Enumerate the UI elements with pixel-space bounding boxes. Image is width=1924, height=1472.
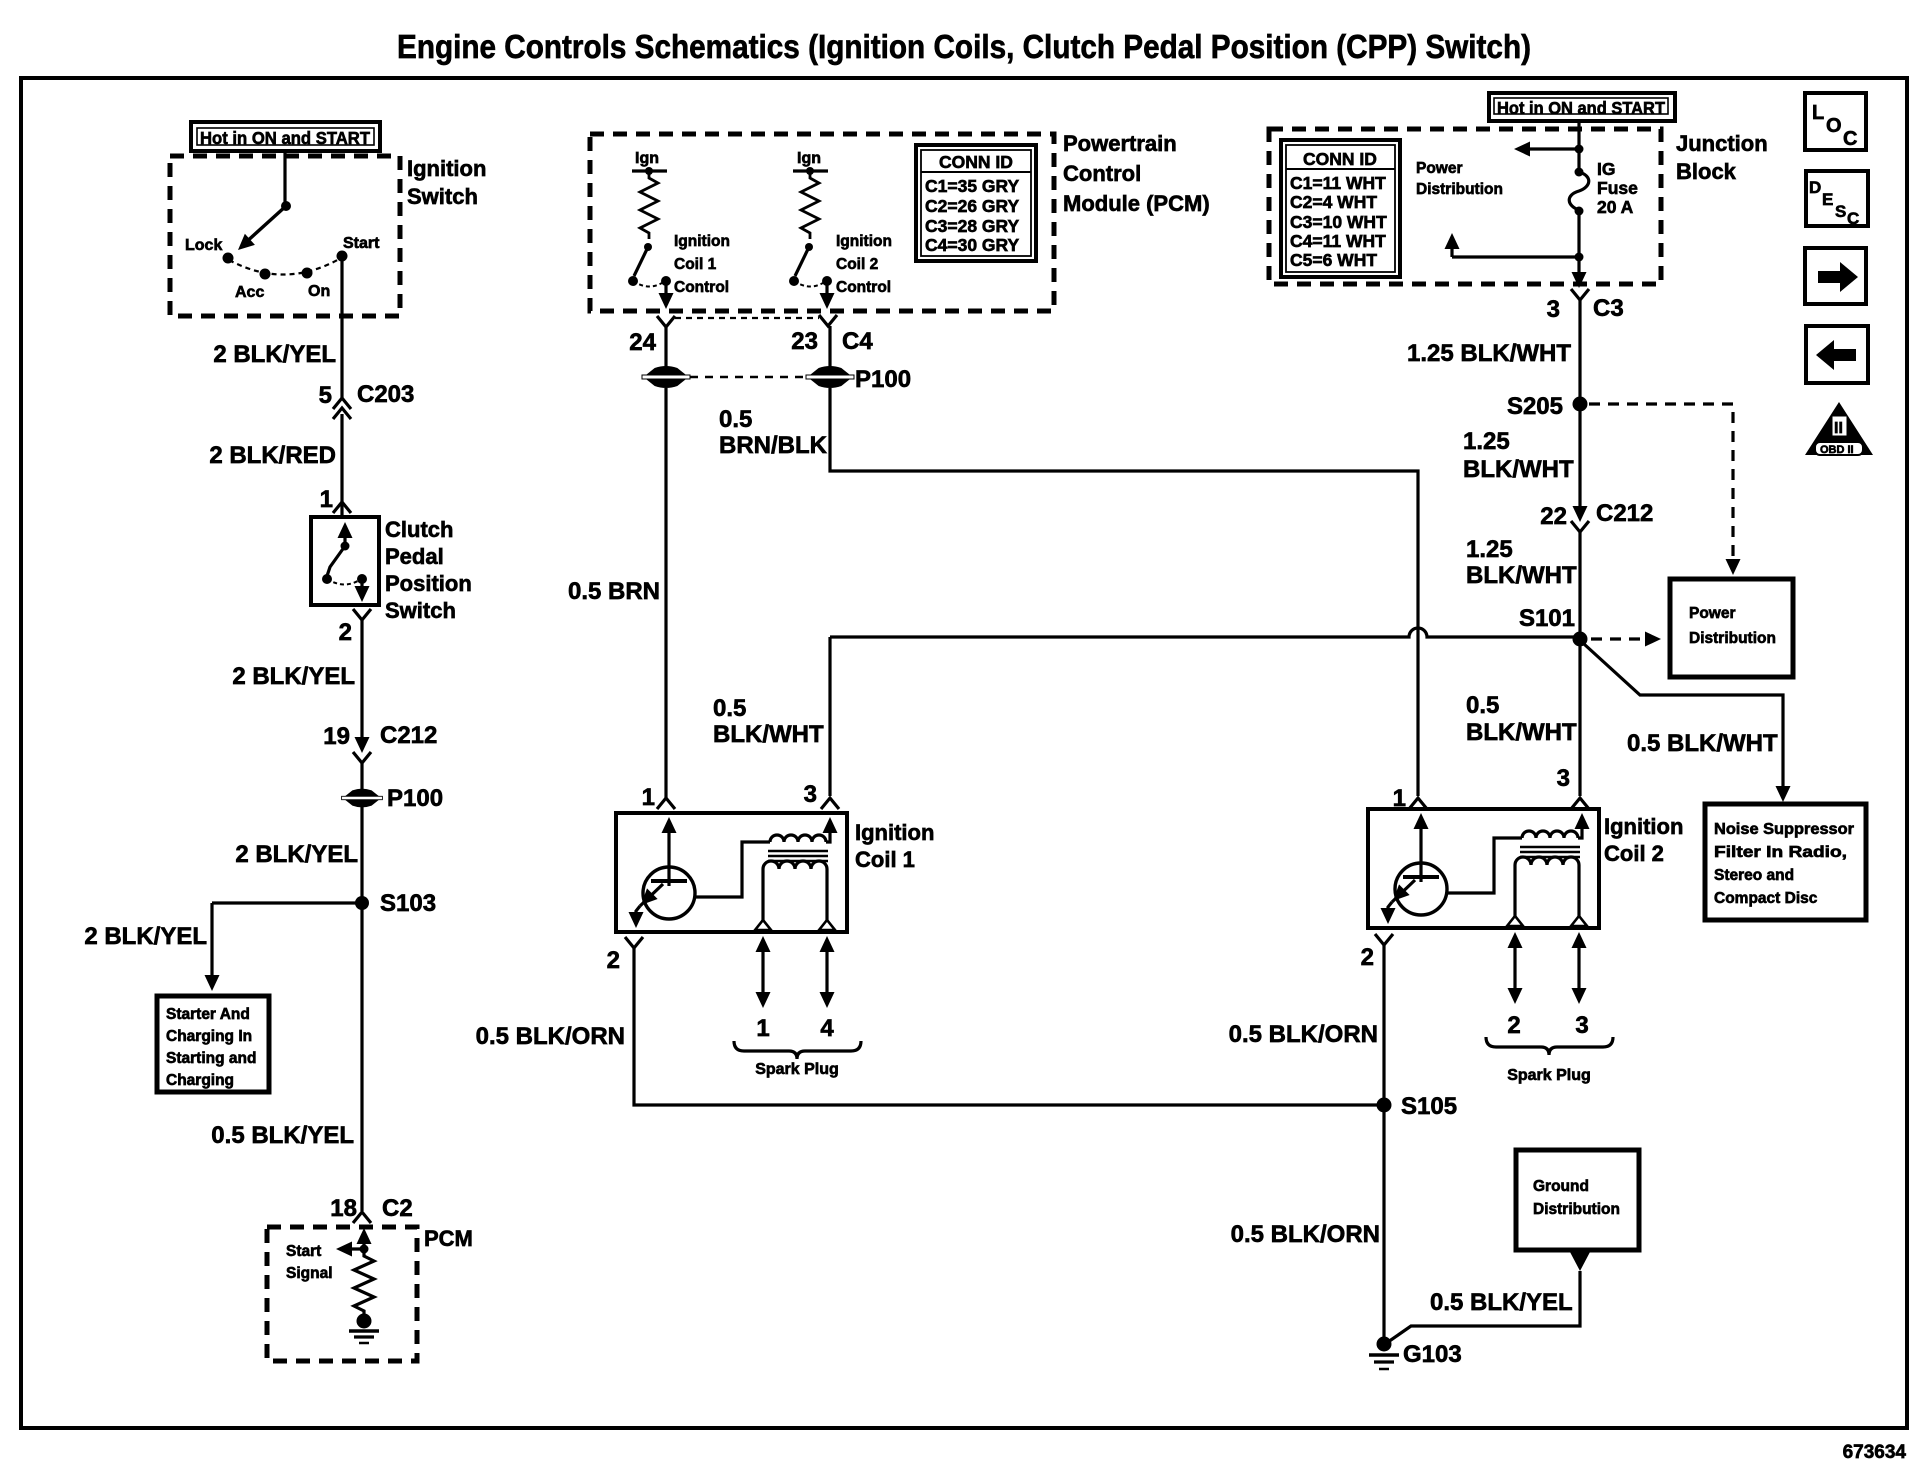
node below fuse: [1575, 253, 1584, 262]
dashed arrow S101 to power distribution box: [1591, 637, 1648, 640]
switch arm with arrow: [244, 206, 286, 244]
svg-text:O: O: [1826, 115, 1842, 137]
svg-text:L: L: [1812, 102, 1824, 124]
svg-text:0.5 BLK/YEL: 0.5 BLK/YEL: [1430, 1289, 1573, 1316]
svg-text:Distribution: Distribution: [1533, 1201, 1620, 1218]
svg-text:24: 24: [629, 329, 656, 356]
power distribution arrow: [1525, 147, 1579, 150]
svg-text:Start: Start: [343, 235, 380, 252]
svg-text:0.5 BLK/ORN: 0.5 BLK/ORN: [476, 1023, 625, 1050]
svg-text:S: S: [1835, 202, 1846, 221]
svg-text:3: 3: [1547, 296, 1560, 323]
node Acc: [260, 269, 271, 280]
svg-text:0.5: 0.5: [713, 695, 746, 722]
svg-text:Coil 1: Coil 1: [674, 256, 717, 273]
wire S105 to G103: [1382, 1105, 1385, 1338]
svg-text:Coil 2: Coil 2: [1604, 841, 1664, 866]
svg-text:Ignition: Ignition: [836, 233, 892, 250]
connector C3: [1571, 289, 1589, 300]
svg-text:5: 5: [319, 382, 332, 409]
svg-text:18: 18: [330, 1195, 357, 1222]
svg-text:C203: C203: [357, 381, 414, 408]
splice S105: [1377, 1098, 1392, 1113]
wire coil 2 pin 2 to S105: [1382, 945, 1385, 1105]
svg-text:1.25: 1.25: [1463, 428, 1510, 455]
svg-text:BLK/WHT: BLK/WHT: [1466, 562, 1577, 589]
wire C212 to S101: [1578, 532, 1581, 639]
svg-text:Powertrain: Powertrain: [1063, 131, 1177, 156]
wire ground distribution to G103: [1388, 1271, 1580, 1342]
svg-text:Block: Block: [1676, 159, 1737, 184]
svg-text:PCM: PCM: [424, 1226, 473, 1251]
svg-text:D: D: [1809, 178, 1821, 197]
svg-text:Hot in ON and START: Hot in ON and START: [1497, 98, 1665, 118]
svg-text:BRN/BLK: BRN/BLK: [719, 432, 828, 459]
connector chevron pin 1: [333, 502, 351, 513]
svg-text:C: C: [1847, 209, 1859, 228]
svg-text:1: 1: [320, 486, 333, 513]
connector chevrons C4: [657, 316, 675, 327]
svg-text:Ignition: Ignition: [855, 820, 934, 845]
LOC icon: [1805, 93, 1866, 150]
splice S103: [355, 896, 369, 910]
wire PCM 23 through P100: [828, 326, 831, 368]
svg-text:C1=35 GRY: C1=35 GRY: [925, 176, 1020, 196]
start signal arrow into PCM: [362, 1237, 365, 1250]
svg-text:673634: 673634: [1843, 1442, 1907, 1463]
left arrow icon: [1806, 326, 1868, 383]
svg-text:C4=11 WHT: C4=11 WHT: [1290, 231, 1386, 251]
svg-text:Module (PCM): Module (PCM): [1063, 191, 1210, 216]
pin 3 chevron coil 1: [821, 798, 839, 809]
svg-text:Switch: Switch: [407, 184, 478, 209]
svg-text:S205: S205: [1507, 393, 1563, 420]
DESC icon: [1806, 171, 1868, 228]
svg-text:S101: S101: [1519, 605, 1575, 632]
svg-text:19: 19: [323, 723, 350, 750]
svg-text:CONN ID: CONN ID: [1303, 149, 1377, 169]
svg-text:0.5 BLK/ORN: 0.5 BLK/ORN: [1229, 1021, 1378, 1048]
svg-text:2: 2: [1507, 1012, 1520, 1039]
pin 1 chevron coil 1: [657, 798, 675, 809]
svg-text:3: 3: [1557, 765, 1570, 792]
svg-text:OBD II: OBD II: [1820, 444, 1854, 456]
svg-text:C: C: [1843, 128, 1857, 150]
svg-text:Clutch: Clutch: [385, 517, 453, 542]
svg-text:2 BLK/YEL: 2 BLK/YEL: [235, 841, 358, 868]
ignition switch dashed box: [170, 156, 400, 316]
PCM dashed box (top): [590, 134, 1054, 311]
svg-text:3: 3: [804, 781, 817, 808]
dashed run S205 to power distribution: [1589, 404, 1733, 559]
svg-text:2 BLK/YEL: 2 BLK/YEL: [84, 923, 207, 950]
svg-text:2 BLK/YEL: 2 BLK/YEL: [213, 341, 336, 368]
svg-text:Starting and: Starting and: [166, 1050, 256, 1067]
connector P100 grommet (coil 2 wire): [806, 367, 854, 387]
power distribution box: [1670, 579, 1793, 677]
start signal branch arrow: [342, 1247, 364, 1250]
svg-text:Ign: Ign: [635, 150, 659, 167]
wire C3 to S205: [1578, 300, 1581, 404]
svg-text:1: 1: [756, 1015, 769, 1042]
wire C203 to CPP switch: [340, 414, 343, 517]
CONN ID table (junction block): [1281, 140, 1400, 277]
svg-text:Engine Controls Schematics (Ig: Engine Controls Schematics (Ignition Coi…: [397, 28, 1531, 65]
junction block dashed box: [1269, 129, 1661, 284]
svg-text:2: 2: [339, 619, 352, 646]
svg-text:Switch: Switch: [385, 598, 456, 623]
svg-text:C2: C2: [382, 1195, 413, 1222]
Hot in ON and START label box (left): [191, 122, 380, 151]
svg-text:C4=30 GRY: C4=30 GRY: [925, 235, 1020, 255]
starter and charging reference box: [157, 996, 269, 1092]
wire below fuse: [1577, 211, 1580, 277]
svg-text:Charging: Charging: [166, 1072, 234, 1089]
connector C203: [333, 398, 351, 409]
svg-text:Coil 1: Coil 1: [855, 847, 915, 872]
svg-text:Control: Control: [1063, 161, 1141, 186]
svg-text:Compact Disc: Compact Disc: [1714, 890, 1818, 907]
svg-text:Stereo and: Stereo and: [1714, 867, 1794, 884]
connector P100 grommet: [342, 790, 383, 807]
svg-text:Ground: Ground: [1533, 1178, 1589, 1195]
wire C212 to P100: [360, 763, 363, 790]
pin 3 chevron coil 2: [1571, 798, 1589, 809]
svg-text:Pedal: Pedal: [385, 544, 444, 569]
svg-text:1.25: 1.25: [1466, 536, 1513, 563]
wire S101 to noise suppressor: [1584, 644, 1783, 793]
ground in PCM: [349, 1314, 379, 1344]
svg-text:0.5: 0.5: [1466, 692, 1499, 719]
node Start: [337, 251, 348, 262]
switch position dashed arc: [229, 258, 341, 275]
svg-text:Position: Position: [385, 571, 472, 596]
wire S101 to coil 2 pin 3: [1578, 639, 1581, 796]
svg-text:Spark Plug: Spark Plug: [755, 1061, 839, 1078]
svg-text:Filter In Radio,: Filter In Radio,: [1714, 844, 1847, 861]
svg-text:Ignition: Ignition: [1604, 814, 1683, 839]
coil 2 driver contact: [789, 243, 835, 309]
wire 0.5 BRN/BLK run to coil 2 pin 1: [830, 388, 1418, 796]
wire hot into junction block: [1577, 121, 1580, 171]
svg-text:C5=6 WHT: C5=6 WHT: [1290, 250, 1377, 270]
dashed connector link: [675, 317, 819, 319]
svg-text:Charging In: Charging In: [166, 1028, 252, 1045]
svg-text:1.25 BLK/WHT: 1.25 BLK/WHT: [1407, 340, 1571, 367]
resistor in PCM: [354, 1250, 374, 1316]
svg-text:IG: IG: [1597, 159, 1615, 179]
fuse IG 20 A: [1569, 168, 1589, 216]
svg-text:C4: C4: [842, 328, 873, 355]
svg-text:Acc: Acc: [235, 284, 264, 301]
svg-text:II: II: [1834, 420, 1843, 437]
pin 2 chevron coil 2: [1375, 934, 1393, 945]
wire S205 to C212: [1578, 404, 1581, 506]
svg-text:BLK/WHT: BLK/WHT: [713, 721, 824, 748]
svg-text:P100: P100: [855, 366, 911, 393]
right arrow icon: [1805, 248, 1866, 304]
wire PCM 24 to P100: [664, 327, 667, 368]
svg-text:C212: C212: [380, 722, 437, 749]
pin 2 chevron coil 1: [625, 937, 643, 948]
wire P100 to coil 1 pin 1: [664, 388, 667, 798]
svg-text:S105: S105: [1401, 1093, 1457, 1120]
svg-text:Control: Control: [836, 279, 891, 296]
svg-text:C3: C3: [1593, 295, 1624, 322]
connector C212: [355, 737, 370, 753]
svg-text:Ign: Ign: [797, 150, 821, 167]
switch pivot dot: [281, 201, 291, 211]
wire coil 1 pin 2 to S105: [634, 948, 1384, 1105]
resistor coil 1 driver: [640, 171, 658, 239]
svg-text:1: 1: [642, 784, 655, 811]
svg-text:0.5 BLK/ORN: 0.5 BLK/ORN: [1231, 1221, 1380, 1248]
svg-text:Distribution: Distribution: [1416, 181, 1503, 198]
svg-text:20 A: 20 A: [1597, 197, 1634, 217]
svg-text:23: 23: [791, 328, 818, 355]
svg-text:Ignition: Ignition: [407, 156, 486, 181]
wire CPP to C212: [360, 620, 363, 738]
Hot in ON and START label box (right): [1489, 93, 1675, 121]
svg-text:0.5 BLK/WHT: 0.5 BLK/WHT: [1627, 730, 1778, 757]
wire hot feed into switch: [283, 151, 286, 206]
svg-text:BLK/WHT: BLK/WHT: [1463, 456, 1574, 483]
dashed P100 link: [690, 376, 806, 379]
ignition coil 1 assembly: [616, 813, 861, 1059]
CONN ID table (PCM): [916, 145, 1036, 261]
svg-text:Ignition: Ignition: [674, 233, 730, 250]
ground G103: [1369, 1337, 1399, 1370]
svg-text:3: 3: [1575, 1012, 1588, 1039]
svg-text:Junction: Junction: [1676, 131, 1768, 156]
node On: [302, 268, 313, 279]
svg-text:Hot in ON and START: Hot in ON and START: [200, 128, 370, 148]
svg-text:22: 22: [1540, 503, 1567, 530]
arrow below ground distribution: [1570, 1252, 1590, 1271]
svg-text:Noise Suppressor: Noise Suppressor: [1714, 821, 1854, 838]
svg-text:Spark Plug: Spark Plug: [1507, 1067, 1591, 1084]
svg-text:C2=26 GRY: C2=26 GRY: [925, 196, 1020, 216]
svg-text:Starter And: Starter And: [166, 1006, 250, 1023]
svg-text:0.5 BLK/YEL: 0.5 BLK/YEL: [211, 1122, 354, 1149]
svg-text:C3=28 GRY: C3=28 GRY: [925, 216, 1020, 236]
arrow out of junction block: [1572, 272, 1587, 288]
branch arrow up: [1452, 255, 1579, 258]
wire S101 feed to coil 1 pin 3 (with hop): [830, 628, 1580, 637]
svg-text:Distribution: Distribution: [1689, 630, 1776, 647]
svg-text:C212: C212: [1596, 500, 1653, 527]
resistor coil 2 driver: [801, 171, 819, 239]
connector P100 grommet (coil 1 wire): [642, 367, 690, 387]
svg-text:2 BLK/YEL: 2 BLK/YEL: [232, 663, 355, 690]
ground distribution box: [1516, 1150, 1639, 1250]
branch wire to starter box: [212, 901, 362, 904]
wire P100 to S103 to C2: [360, 806, 363, 1211]
svg-text:CONN ID: CONN ID: [939, 152, 1013, 172]
svg-text:Control: Control: [674, 279, 729, 296]
svg-text:4: 4: [820, 1015, 834, 1042]
svg-text:S103: S103: [380, 890, 436, 917]
svg-text:G103: G103: [1403, 1341, 1462, 1368]
splice S205: [1573, 397, 1588, 412]
svg-text:0.5: 0.5: [719, 406, 752, 433]
svg-text:Signal: Signal: [286, 1265, 333, 1282]
svg-text:C1=11 WHT: C1=11 WHT: [1290, 173, 1386, 193]
svg-text:2 BLK/RED: 2 BLK/RED: [209, 442, 336, 469]
ignition coil 2 assembly: [1368, 809, 1613, 1055]
svg-text:On: On: [308, 283, 330, 300]
svg-text:Fuse: Fuse: [1597, 178, 1638, 198]
svg-text:Start: Start: [286, 1243, 321, 1260]
svg-text:BLK/WHT: BLK/WHT: [1466, 719, 1577, 746]
wire from Start down to C203: [340, 261, 343, 399]
noise suppressor reference box: [1705, 804, 1866, 920]
pin 1 chevron coil 2: [1409, 798, 1427, 809]
svg-text:Power: Power: [1689, 605, 1736, 622]
svg-text:Lock: Lock: [185, 237, 222, 254]
OBD II warning triangle: [1805, 402, 1873, 456]
svg-text:2: 2: [607, 947, 620, 974]
connector chevron pin 2: [353, 609, 371, 620]
CPP switch internals: [322, 522, 370, 602]
svg-text:Coil 2: Coil 2: [836, 256, 878, 273]
svg-text:Power: Power: [1416, 160, 1463, 177]
svg-text:2: 2: [1361, 944, 1374, 971]
node Lock: [223, 253, 234, 264]
svg-text:C3=10 WHT: C3=10 WHT: [1290, 212, 1387, 232]
svg-text:P100: P100: [387, 785, 443, 812]
connector C2: [353, 1212, 371, 1223]
coil 1 driver contact: [628, 243, 674, 309]
svg-text:E: E: [1822, 190, 1833, 209]
svg-text:C2=4 WHT: C2=4 WHT: [1290, 192, 1377, 212]
svg-text:0.5 BRN: 0.5 BRN: [568, 578, 660, 605]
PCM dashed box (bottom): [267, 1227, 417, 1361]
clutch pedal position switch box: [311, 517, 379, 605]
